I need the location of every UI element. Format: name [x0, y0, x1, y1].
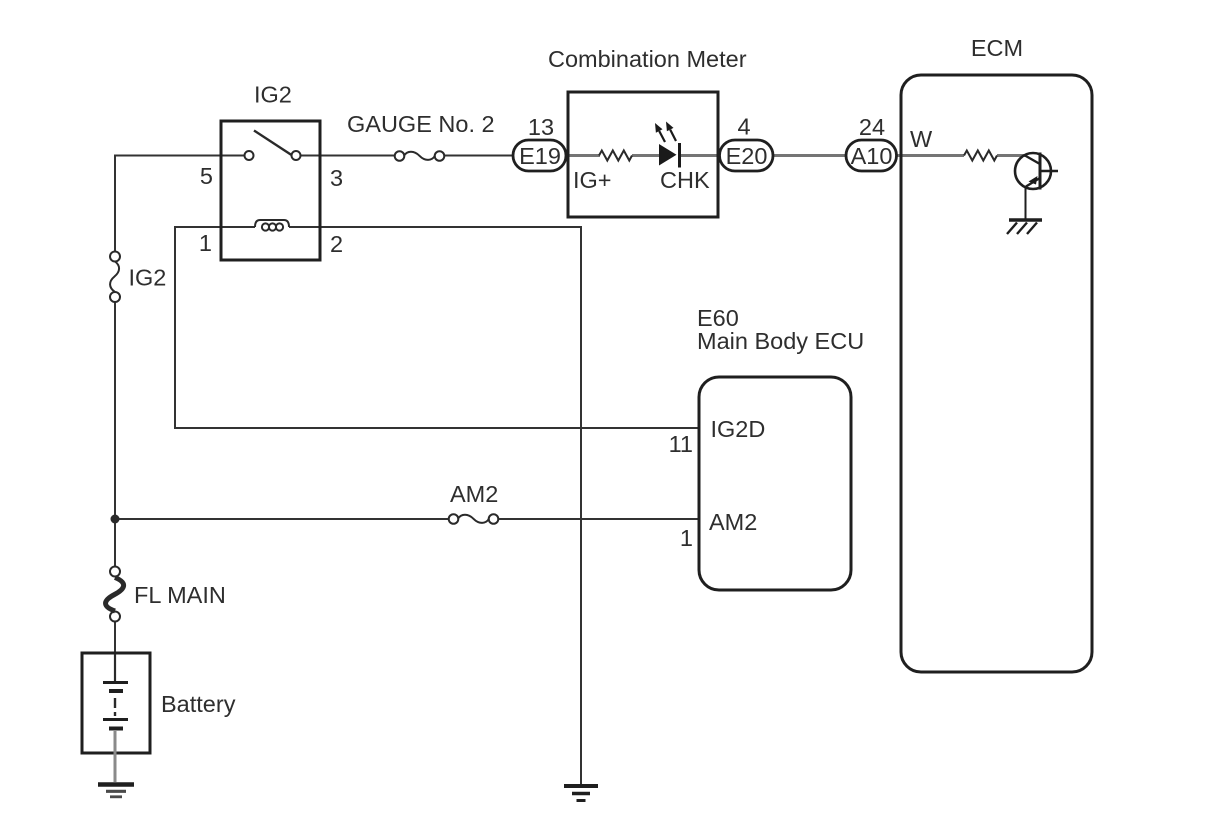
junction node at battery feed / AM2 branch — [111, 515, 120, 524]
svg-text:Battery: Battery — [161, 691, 236, 717]
svg-text:W: W — [910, 126, 933, 152]
svg-text:Main Body ECU: Main Body ECU — [697, 328, 864, 354]
svg-text:A10: A10 — [851, 143, 893, 169]
svg-text:3: 3 — [330, 165, 343, 191]
fuse GAUGE No. 2 — [395, 151, 445, 161]
svg-text:Combination Meter: Combination Meter — [548, 46, 747, 72]
connector oval E20, pin 4 — [720, 140, 774, 171]
svg-text:CHK: CHK — [660, 167, 710, 193]
relay IG2 box — [221, 121, 320, 260]
wire: meter resistor to LED — [632, 154, 660, 157]
svg-text:1: 1 — [199, 230, 212, 256]
wire: battery/IG2 vertical feed x=115 — [114, 156, 116, 655]
combination meter box — [568, 92, 718, 217]
svg-text:AM2: AM2 — [709, 509, 757, 535]
svg-text:IG2D: IG2D — [711, 416, 766, 442]
wire: riser x=581 down to ground — [580, 226, 582, 784]
svg-text:24: 24 — [859, 114, 885, 140]
wire: relay pin 3 to GAUGE fuse — [301, 155, 396, 157]
svg-text:1: 1 — [680, 525, 693, 551]
wire: E19 to resistor inside combination meter — [564, 154, 600, 157]
battery — [82, 653, 150, 782]
ground (battery) — [98, 785, 134, 797]
svg-text:4: 4 — [737, 114, 750, 140]
wire: AM2 fuse to E60 pin 1 — [499, 518, 701, 520]
relay switch contact pin 3 — [292, 151, 301, 160]
wire: relay coil pin 2 across to x=581 — [289, 226, 582, 228]
svg-text:ECM: ECM — [971, 35, 1023, 61]
svg-text:E20: E20 — [726, 143, 768, 169]
wire: AM2 feed y=519 from junction to fuse — [114, 518, 449, 520]
wire: IG2D feed y=428 to E60 pin 11 — [174, 427, 700, 429]
LED CHK — [655, 122, 680, 168]
ground (x=581 riser) — [564, 786, 598, 801]
wire: relay coil pin 1 to left riser x=175 — [175, 227, 255, 428]
svg-text:5: 5 — [200, 163, 213, 189]
wire: main ignition feed y=155 from x=115 to relay contact — [114, 155, 245, 157]
connector oval E19, pin 13 — [513, 140, 566, 171]
wire: ECM resistor to transistor — [997, 154, 1026, 157]
resistor (combination meter) — [599, 151, 632, 161]
fuse AM2 — [449, 514, 499, 524]
wire: GAUGE fuse to connector E19 — [445, 155, 517, 157]
wire: A10 into ECM to resistor — [895, 154, 964, 157]
svg-text:IG2: IG2 — [129, 265, 167, 291]
connector oval A10, pin 24 — [846, 140, 897, 171]
resistor (ECM) — [964, 151, 997, 161]
wire: E20 to A10 — [770, 154, 848, 157]
relay switch blade — [254, 131, 292, 156]
svg-text:AM2: AM2 — [450, 481, 498, 507]
fuse IG2 (vertical) — [110, 252, 120, 303]
ground (ECM transistor emitter) — [1007, 220, 1042, 234]
svg-text:2: 2 — [330, 231, 343, 257]
svg-text:FL MAIN: FL MAIN — [134, 582, 226, 608]
relay switch contact pin 5 — [245, 151, 254, 160]
fusible link FL MAIN — [106, 567, 124, 622]
transistor (ECM output) — [1015, 153, 1058, 220]
svg-text:IG2: IG2 — [254, 82, 292, 108]
relay coil — [255, 220, 289, 231]
wire: LED cathode to connector E20 — [678, 154, 723, 157]
svg-text:13: 13 — [528, 114, 554, 140]
svg-text:E19: E19 — [519, 143, 561, 169]
svg-text:IG+: IG+ — [573, 167, 612, 193]
ECM box — [901, 75, 1092, 672]
E60 Main Body ECU box — [699, 377, 851, 590]
svg-text:11: 11 — [669, 431, 693, 457]
svg-text:GAUGE No. 2: GAUGE No. 2 — [347, 111, 495, 137]
